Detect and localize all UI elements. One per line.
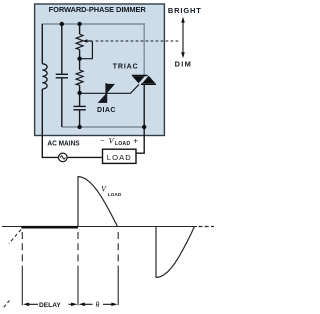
junction node C (wiper tie) <box>77 57 81 61</box>
svg-text:LOAD: LOAD <box>115 141 130 147</box>
BRIGHT-DIM arrow <box>182 21 184 55</box>
dimmer panel box <box>35 4 165 136</box>
junction node D (DIAC net) <box>77 91 81 95</box>
wire EMI capacitor branch upper <box>61 24 63 74</box>
theta dimension arrow <box>79 303 85 307</box>
capacitor C1 (filter) <box>56 73 68 75</box>
waveform positive lobe curve <box>78 177 118 227</box>
resistor R2 <box>79 59 81 70</box>
svg-text:BRIGHT: BRIGHT <box>168 6 202 15</box>
wire pot branch upper <box>79 24 81 34</box>
svg-text:V: V <box>101 185 107 194</box>
svg-text:−: − <box>100 136 105 145</box>
AC source V1 <box>59 153 68 162</box>
waveform thick zero segment <box>21 226 78 229</box>
waveform negative riser <box>155 227 157 278</box>
LOAD box <box>103 149 137 163</box>
svg-text:LOAD: LOAD <box>108 192 122 197</box>
wire top horizontal <box>42 23 146 25</box>
svg-text:+: + <box>133 137 138 146</box>
waveform positive riser <box>77 177 79 227</box>
junction node B (pot top) <box>77 22 81 26</box>
wire left rail lower to AC mains <box>42 89 58 157</box>
DELAY dimension arrow <box>23 303 29 307</box>
wire pot to junction <box>79 50 81 59</box>
wire TRIAC rail to LOAD <box>136 127 144 153</box>
svg-text:V: V <box>109 137 115 146</box>
timing capacitor C2 <box>79 93 81 107</box>
svg-text:LOAD: LOAD <box>107 153 132 162</box>
svg-text:TRIAC: TRIAC <box>113 64 139 71</box>
DIAC D1 <box>105 83 107 103</box>
dimension boundary line x=22 <box>21 232 23 271</box>
wire AC source to LOAD <box>67 156 103 158</box>
dimension boundary line x=78 <box>77 232 79 271</box>
junction node A (C1 top) <box>60 22 64 26</box>
TRIAC rail upper (gray) <box>143 24 145 75</box>
wire left rail upper <box>41 24 43 64</box>
TRIAC Q1 <box>132 75 148 77</box>
junction node F (TRIAC MT1) <box>142 125 146 129</box>
svg-text:θ: θ <box>96 302 100 309</box>
dimension boundary line x=118 <box>117 232 119 271</box>
waveform axis dashed tail <box>199 226 215 228</box>
svg-text:AC MAINS: AC MAINS <box>47 139 80 148</box>
svg-text:FORWARD-PHASE DIMMER: FORWARD-PHASE DIMMER <box>49 5 147 14</box>
svg-text:DIAC: DIAC <box>97 107 116 114</box>
wire EMI capacitor branch lower <box>61 78 63 127</box>
wire node to DIAC <box>80 92 106 94</box>
svg-text:DELAY: DELAY <box>39 302 61 309</box>
waveform negative lobe curve <box>156 227 195 278</box>
wire bottom horizontal <box>62 126 144 128</box>
waveform axis <box>2 226 197 228</box>
junction node E (C2 bottom) <box>77 125 81 129</box>
waveform dashed previous cycle <box>9 230 21 244</box>
svg-text:DIM: DIM <box>175 60 192 69</box>
pot wiper arm <box>80 41 93 59</box>
break mark bottom left <box>3 301 10 309</box>
dashed link wiper to BRIGHT-DIM arrow <box>96 40 181 42</box>
TRIAC rail lower <box>143 85 145 128</box>
wire DIAC to gate <box>107 84 139 93</box>
potentiometer R1 <box>76 34 83 49</box>
inductor L1 <box>42 64 47 89</box>
